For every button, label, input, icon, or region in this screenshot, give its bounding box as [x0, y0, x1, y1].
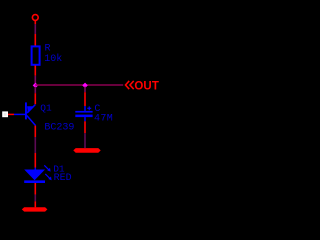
LED cathode bar — [24, 180, 45, 183]
pin overlap above ground right — [84, 133, 86, 148]
wire resistor bottom — [34, 66, 36, 76]
capacitor bottom pin stub — [84, 117, 86, 121]
svg-text:10k: 10k — [44, 53, 62, 65]
wire to LED anode — [34, 153, 36, 168]
pin overlap below node A — [34, 87, 36, 93]
capacitor top plate — [75, 111, 92, 113]
svg-text:OUT: OUT — [134, 81, 159, 93]
pin overlap above node A — [34, 76, 36, 84]
terminal VCC top open circle — [32, 15, 38, 21]
LED emission arrow 2 — [45, 174, 51, 180]
wire node A to transistor collector — [34, 93, 36, 104]
LED emission arrow 1 — [44, 165, 50, 171]
transistor base pin — [14, 113, 25, 115]
svg-text:RED: RED — [54, 173, 72, 184]
wire pad to base — [8, 113, 14, 115]
wire transistor emitter down — [34, 126, 36, 137]
wire capacitor to ground — [84, 121, 86, 133]
transistor Q1 base bar — [25, 102, 27, 119]
OUT chevron 2 — [130, 81, 134, 89]
ground symbol under capacitor — [73, 148, 100, 153]
pin overlap segment below circle — [34, 24, 36, 34]
capacitor plus sign — [87, 106, 91, 110]
transistor arrow — [27, 106, 34, 113]
capacitor bottom plate — [75, 115, 92, 118]
LED D1 triangle — [24, 170, 45, 181]
terminal pad base (white square) — [3, 112, 7, 116]
wire LED cathode down — [34, 183, 36, 195]
pin overlap mid segment — [34, 137, 36, 153]
capacitor top pin stub — [84, 106, 86, 111]
svg-text:Q1: Q1 — [40, 102, 52, 113]
node A junction dot — [33, 83, 39, 89]
node B junction dot above capacitor — [82, 83, 88, 89]
resistor R body — [32, 46, 40, 64]
svg-text:BC239: BC239 — [44, 122, 74, 133]
svg-text:R: R — [45, 44, 51, 55]
transistor bottom limb line — [27, 116, 36, 126]
transistor top limb line — [27, 105, 36, 113]
svg-text:47M: 47M — [94, 114, 113, 125]
pin overlap above ground left — [34, 195, 36, 202]
LED anode pin stub — [34, 168, 36, 171]
ground symbol under LED — [22, 207, 48, 211]
wire top circle to pin — [34, 21, 36, 25]
wire node B to capacitor — [84, 92, 86, 106]
wire into ground left — [34, 201, 36, 207]
wire to resistor top — [34, 34, 36, 46]
capacitor C: pin overlap below node B — [84, 87, 86, 93]
OUT chevron 1 — [126, 81, 130, 89]
horizontal net bus OUT — [35, 84, 123, 86]
